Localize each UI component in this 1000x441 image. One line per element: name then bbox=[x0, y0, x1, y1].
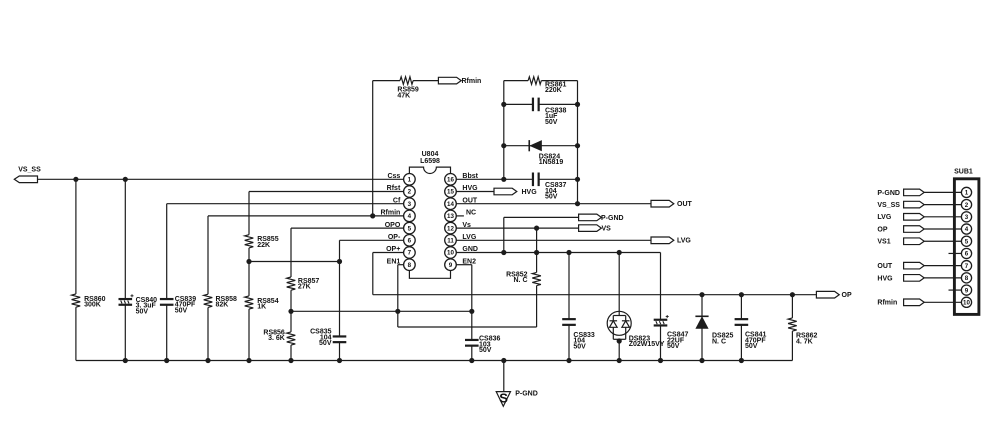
wire SUB1 pin 9 stub bbox=[949, 289, 962, 291]
wire DS823 column bbox=[618, 253, 620, 361]
svg-text:9: 9 bbox=[965, 287, 969, 294]
wire OP+ row bbox=[373, 252, 404, 254]
node SUB1 pin 3 flag LVG bbox=[877, 214, 961, 222]
wire EN1 drop bbox=[397, 265, 399, 327]
svg-text:L6598: L6598 bbox=[420, 158, 440, 165]
svg-text:8: 8 bbox=[965, 275, 969, 282]
wire Bbst row bbox=[456, 178, 577, 180]
svg-text:50V: 50V bbox=[479, 347, 492, 354]
capacitor CS847 bbox=[654, 315, 689, 350]
capacitor CS835 bbox=[310, 329, 346, 347]
svg-text:4: 4 bbox=[965, 226, 969, 233]
svg-text:5: 5 bbox=[408, 225, 412, 232]
svg-text:P-GND: P-GND bbox=[601, 215, 624, 222]
wire VS_SS to Css bus bbox=[38, 178, 404, 180]
svg-text:VS_SS: VS_SS bbox=[877, 202, 900, 209]
wire P-GND symbol drop bbox=[503, 361, 505, 392]
svg-text:10: 10 bbox=[963, 299, 970, 306]
svg-text:16: 16 bbox=[447, 177, 454, 184]
svg-text:1K: 1K bbox=[257, 304, 266, 311]
resistor RS852 bbox=[506, 271, 541, 285]
svg-text:Rfmin: Rfmin bbox=[380, 210, 400, 217]
svg-text:9: 9 bbox=[449, 262, 453, 269]
wire Cf row bbox=[167, 203, 404, 205]
node SUB1 pin 7 flag OUT bbox=[877, 262, 961, 270]
svg-text:50V: 50V bbox=[175, 307, 188, 314]
transistor DS823 dual zener bbox=[607, 311, 665, 348]
wire CS840 column bbox=[124, 179, 126, 360]
wire Rfst row bbox=[249, 191, 404, 193]
svg-text:N. C: N. C bbox=[712, 338, 726, 345]
wire OPO row bbox=[291, 227, 404, 229]
node SUB1 pin 5 flag VS1 bbox=[877, 238, 961, 246]
resistor RS855 bbox=[245, 235, 279, 249]
node OUT flag bbox=[651, 200, 693, 208]
capacitor CS840 bbox=[119, 294, 158, 315]
svg-text:Vs: Vs bbox=[462, 222, 471, 229]
resistor RS856 bbox=[263, 329, 295, 345]
wire CS835 column bbox=[339, 240, 341, 360]
wire EN1 row bbox=[398, 264, 404, 266]
capacitor CS837 bbox=[533, 173, 567, 201]
diode DS824 bbox=[529, 140, 563, 166]
svg-text:HVG: HVG bbox=[877, 275, 893, 282]
svg-text:LVG: LVG bbox=[677, 238, 691, 245]
svg-text:OPO: OPO bbox=[385, 222, 401, 229]
wire NC stub bbox=[456, 215, 464, 217]
node SUB1 pin 2 flag VS_SS bbox=[877, 201, 961, 209]
wire OP line bbox=[373, 294, 817, 296]
capacitor CS833 bbox=[562, 319, 595, 350]
svg-text:S: S bbox=[499, 390, 508, 405]
node RS855 link junctions bbox=[246, 259, 342, 264]
svg-text:EN2: EN2 bbox=[462, 258, 476, 265]
ground P-GND symbol bbox=[496, 390, 538, 406]
wire snubber top bbox=[504, 80, 578, 82]
node GND row junctions bbox=[501, 250, 622, 255]
wire RS859 drop bbox=[372, 81, 374, 216]
svg-text:22K: 22K bbox=[257, 242, 270, 249]
svg-text:6: 6 bbox=[408, 238, 412, 245]
node HVG flag bbox=[494, 188, 537, 196]
node SUB1 pin 4 flag OP bbox=[877, 226, 961, 234]
svg-text:47K: 47K bbox=[397, 92, 410, 99]
capacitor CS836 bbox=[465, 336, 501, 354]
svg-text:OUT: OUT bbox=[677, 201, 693, 208]
node VS_SS input flag bbox=[14, 166, 41, 182]
svg-text:HVG: HVG bbox=[522, 189, 538, 196]
node ground bus junctions bbox=[123, 358, 744, 363]
diode DS825 bbox=[695, 316, 733, 345]
svg-text:Css: Css bbox=[387, 173, 400, 180]
wire Vs row bbox=[456, 227, 578, 229]
svg-text:50V: 50V bbox=[745, 343, 758, 350]
svg-text:VS: VS bbox=[602, 226, 612, 233]
svg-text:10: 10 bbox=[447, 250, 454, 257]
node OUT junction bbox=[575, 201, 580, 206]
svg-text:OP-: OP- bbox=[388, 234, 401, 241]
svg-text:N. C: N. C bbox=[514, 277, 528, 284]
svg-text:82K: 82K bbox=[216, 302, 229, 309]
svg-text:Z02W15VY: Z02W15VY bbox=[629, 341, 665, 348]
resistor RS858 bbox=[204, 294, 237, 308]
svg-text:Cf: Cf bbox=[393, 197, 401, 204]
wire RS859 row bbox=[373, 80, 439, 82]
svg-text:2: 2 bbox=[408, 189, 412, 196]
node Vs junction bbox=[534, 226, 539, 231]
resistor RS862 bbox=[788, 318, 817, 345]
wire HVG row bbox=[456, 191, 494, 193]
svg-text:P-GND: P-GND bbox=[877, 190, 900, 197]
node LVG flag bbox=[651, 237, 691, 245]
node SUB1 pin 10 flag Rfmin bbox=[877, 299, 961, 307]
resistor RS860 bbox=[72, 294, 106, 309]
wire OP+ drop bbox=[372, 253, 374, 295]
svg-text:LVG: LVG bbox=[877, 214, 891, 221]
wire CS838 row bbox=[504, 103, 578, 105]
svg-text:50V: 50V bbox=[545, 119, 558, 126]
resistor RS859 bbox=[397, 77, 419, 100]
resistor RS861 bbox=[528, 77, 566, 94]
node snubber junctions bbox=[501, 102, 580, 148]
node VS flag bbox=[579, 225, 612, 233]
resistor RS854 bbox=[245, 296, 279, 311]
svg-text:3: 3 bbox=[408, 201, 412, 208]
svg-text:P-GND: P-GND bbox=[515, 390, 538, 397]
wire CS841 column bbox=[740, 295, 742, 361]
capacitor CS841 bbox=[735, 319, 767, 350]
svg-text:3: 3 bbox=[965, 214, 969, 221]
node SUB1 pin 1 flag P-GND bbox=[877, 189, 961, 197]
svg-text:OUT: OUT bbox=[462, 197, 478, 204]
svg-text:11: 11 bbox=[447, 238, 454, 245]
svg-text:OP+: OP+ bbox=[386, 246, 400, 253]
wire ground bus bbox=[76, 360, 792, 362]
svg-text:220K: 220K bbox=[545, 87, 562, 94]
wire P-GND drop bbox=[503, 217, 505, 252]
wire CS839 column bbox=[166, 204, 168, 361]
svg-text:OP: OP bbox=[842, 292, 852, 299]
wire CS833 column bbox=[568, 253, 570, 361]
node OP line junctions bbox=[699, 292, 795, 297]
svg-text:7: 7 bbox=[965, 263, 969, 270]
wire SUB1 pin 6 stub bbox=[949, 252, 962, 254]
wire RS857 junction row bbox=[291, 310, 472, 312]
wire RS855-RS854 column bbox=[248, 192, 250, 361]
svg-text:15: 15 bbox=[447, 189, 454, 196]
wire RS858 column bbox=[207, 216, 209, 361]
node VS_SS bus junctions bbox=[73, 177, 128, 182]
capacitor CS838 bbox=[533, 98, 567, 126]
svg-text:VS_SS: VS_SS bbox=[18, 166, 41, 173]
wire RS857-RS856 column bbox=[290, 228, 292, 360]
svg-text:50V: 50V bbox=[136, 308, 149, 315]
wire DS825 column bbox=[701, 295, 703, 361]
capacitor CS839 bbox=[160, 296, 196, 314]
svg-text:2: 2 bbox=[965, 202, 969, 209]
wire snubber right rail bbox=[577, 81, 579, 204]
connector SUB1 body bbox=[954, 169, 979, 315]
svg-text:EN1: EN1 bbox=[387, 258, 401, 265]
wire OP- row bbox=[340, 239, 404, 241]
wire GND row bbox=[456, 252, 660, 254]
svg-text:8: 8 bbox=[408, 262, 412, 269]
wire Rfmin row bbox=[208, 215, 404, 217]
wire CS847 column bbox=[660, 253, 662, 361]
op-amp U1 IC U804 L6598 bbox=[380, 151, 478, 278]
wire EN2 drop bbox=[471, 265, 473, 361]
node P-GND flag bbox=[579, 214, 624, 222]
svg-text:Rfmin: Rfmin bbox=[462, 78, 482, 85]
svg-text:Rfst: Rfst bbox=[387, 185, 401, 192]
node Rfmin flag bbox=[438, 77, 481, 85]
svg-text:4. 7K: 4. 7K bbox=[796, 338, 813, 345]
svg-text:3. 6K: 3. 6K bbox=[268, 335, 285, 342]
svg-text:5: 5 bbox=[965, 238, 969, 245]
svg-text:OP: OP bbox=[877, 226, 887, 233]
svg-text:50V: 50V bbox=[667, 343, 680, 350]
node RS857 row junctions bbox=[288, 309, 474, 314]
svg-text:27K: 27K bbox=[298, 284, 311, 291]
wire EN2 row bbox=[456, 264, 472, 266]
node OP flag bbox=[816, 291, 852, 299]
svg-text:50V: 50V bbox=[545, 194, 558, 201]
wire Vs-RS852 column bbox=[536, 228, 538, 327]
wire DS824 row bbox=[504, 145, 578, 147]
resistor RS857 bbox=[287, 277, 320, 291]
svg-text:1N5819: 1N5819 bbox=[539, 159, 564, 166]
svg-text:50V: 50V bbox=[319, 340, 332, 347]
node DS823 anode junction bbox=[617, 338, 622, 343]
svg-text:SUB1: SUB1 bbox=[954, 169, 973, 176]
wire RS860 column bbox=[75, 179, 77, 360]
wire snubber left rail bbox=[503, 81, 505, 180]
node Bbst junctions bbox=[501, 177, 580, 182]
svg-text:1: 1 bbox=[408, 177, 412, 184]
wire RS862 column bbox=[791, 295, 793, 361]
svg-text:4: 4 bbox=[408, 213, 412, 220]
svg-text:50V: 50V bbox=[573, 343, 586, 350]
wire LVG row bbox=[456, 239, 651, 241]
node SUB1 pin 8 flag HVG bbox=[877, 275, 961, 283]
wire OUT row bbox=[456, 203, 651, 205]
svg-text:Bbst: Bbst bbox=[462, 173, 478, 180]
svg-text:1: 1 bbox=[965, 190, 969, 197]
svg-text:14: 14 bbox=[447, 201, 454, 208]
svg-text:LVG: LVG bbox=[462, 234, 476, 241]
svg-text:NC: NC bbox=[466, 210, 476, 217]
svg-text:VS1: VS1 bbox=[877, 239, 890, 246]
svg-text:GND: GND bbox=[462, 246, 478, 253]
svg-text:300K: 300K bbox=[84, 302, 101, 309]
wire P-GND link bbox=[504, 216, 579, 218]
wire EN1 to RS852 link bbox=[398, 326, 537, 328]
node Rfmin junction bbox=[370, 213, 375, 218]
svg-text:6: 6 bbox=[965, 251, 969, 258]
svg-text:7: 7 bbox=[408, 250, 412, 257]
svg-text:12: 12 bbox=[447, 225, 454, 232]
svg-text:13: 13 bbox=[447, 213, 454, 220]
wire RS855 to OP- link bbox=[249, 261, 340, 263]
svg-text:HVG: HVG bbox=[462, 185, 478, 192]
svg-text:OUT: OUT bbox=[877, 263, 893, 270]
svg-text:Rfmin: Rfmin bbox=[877, 300, 897, 307]
